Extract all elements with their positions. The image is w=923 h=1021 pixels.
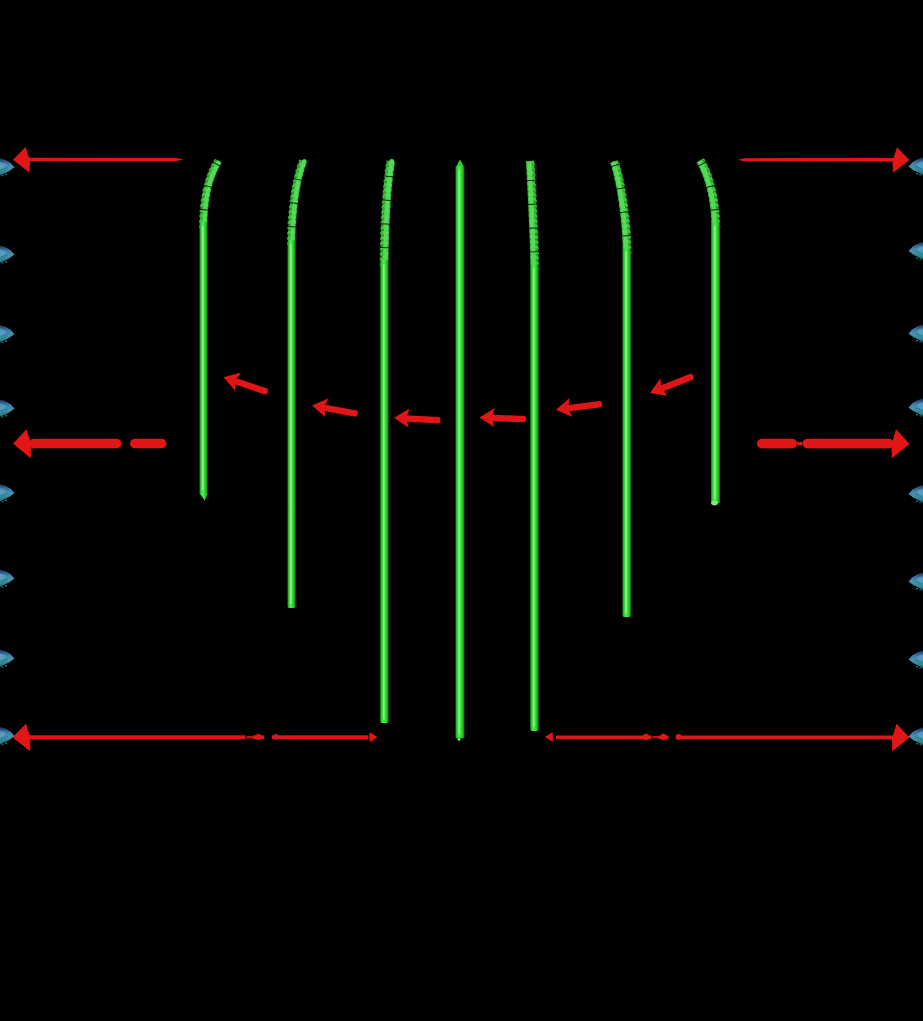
cone right 2 <box>909 242 923 260</box>
field line L5 tube <box>530 264 539 731</box>
cone left 1 <box>0 158 15 176</box>
small arrow a6 <box>646 367 696 402</box>
field line L1 curved top (stippled) <box>202 161 219 228</box>
cone right 8 <box>909 728 923 746</box>
small arrow a3 <box>394 408 441 429</box>
small arrow a1 <box>221 368 271 401</box>
cone left 2 <box>0 246 15 264</box>
cone left 6 <box>0 570 15 588</box>
field line L3 curved top (stippled) <box>383 161 392 266</box>
cone right 3 <box>909 325 923 343</box>
arrow bottom-right long (points right, small head at left end) <box>545 724 910 752</box>
small arrow a5 <box>555 394 604 419</box>
cone left 7 <box>0 650 15 668</box>
field line L7 curved top (stippled) <box>699 161 717 229</box>
cone left 3 <box>0 325 15 343</box>
field line L6 curved top (stippled) <box>613 162 628 255</box>
black annotation marks over bottom-right arrow <box>652 732 660 743</box>
cone right 5 <box>909 485 923 503</box>
arrow top-right (points right) <box>738 147 910 173</box>
cone right 4 <box>909 399 923 417</box>
arrow mid-left thick (points left) <box>13 429 167 458</box>
arrow top-left (points left) <box>13 147 184 173</box>
field line L6 tube <box>623 248 632 617</box>
cone right 1 <box>909 158 923 176</box>
cone right 6 <box>909 573 923 591</box>
field line L2 tube <box>288 240 296 608</box>
small arrow a4 <box>479 408 526 429</box>
cone left 4 <box>0 400 15 418</box>
cone left 5 <box>0 484 15 502</box>
arrow bottom-left long (points left, small head at right end) <box>13 724 378 752</box>
field line L7 tube <box>711 222 720 506</box>
field line L3 tube <box>380 260 389 723</box>
field line L1 tube <box>200 222 208 501</box>
field line L5 curved top (stippled) <box>529 161 536 270</box>
arrow mid-right thick (points right) <box>757 429 910 458</box>
black annotation marks over bottom-left arrow <box>255 734 261 740</box>
field line L2 curved top (stippled) <box>290 161 304 245</box>
field line L4 (center) tube with pointed top <box>456 160 465 743</box>
cone right 7 <box>909 651 923 669</box>
small arrow a2 <box>310 396 359 423</box>
cone left 8 <box>0 727 15 745</box>
